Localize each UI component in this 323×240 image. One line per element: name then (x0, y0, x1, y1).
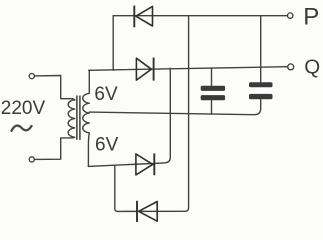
svg-text:6V: 6V (95, 135, 119, 156)
svg-text:220V: 220V (1, 98, 46, 119)
svg-text:P: P (303, 3, 319, 30)
svg-text:6V: 6V (94, 84, 118, 105)
svg-text:Q: Q (304, 56, 320, 79)
